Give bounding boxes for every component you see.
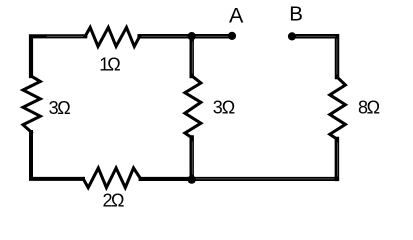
terminal dot A xyxy=(228,32,236,40)
svg-text:Ω: Ω xyxy=(107,54,120,74)
wire bottom (R2 past bottom junction to bottom-right corner) xyxy=(141,177,337,181)
svg-text:Ω: Ω xyxy=(111,191,124,209)
wire top middle (R1 to node A terminal) xyxy=(140,34,232,39)
wire right vertical bottom (bottom-right corner up to R5) xyxy=(335,139,340,179)
wire top-left corner segment (left node to R1) xyxy=(31,36,85,76)
terminal dot B xyxy=(288,32,296,40)
wire middle vertical top (junction to R4) xyxy=(189,36,193,76)
svg-text:Ω: Ω xyxy=(57,98,70,118)
resistor R5 8ohm (right vertical) xyxy=(330,77,346,139)
svg-text:B: B xyxy=(289,3,303,26)
resistor R3 3ohm (left vertical) xyxy=(23,76,40,132)
resistor R4 3ohm (middle vertical) xyxy=(185,76,201,138)
junction dot bottom node xyxy=(188,175,196,183)
resistor R2 2ohm (bottom horizontal) xyxy=(83,168,140,188)
junction dot top node xyxy=(188,32,196,40)
wire left bottom segment (R3 to bottom-left corner to R2) xyxy=(31,132,83,179)
wire terminal B to top-right corner down to R5 xyxy=(292,36,337,77)
svg-text:Ω: Ω xyxy=(367,98,380,118)
wire middle vertical bottom (R4 to bottom junction) xyxy=(189,138,193,180)
resistor R1 1ohm (top horizontal) xyxy=(85,27,140,46)
svg-text:A: A xyxy=(229,4,244,28)
svg-text:Ω: Ω xyxy=(222,98,235,118)
